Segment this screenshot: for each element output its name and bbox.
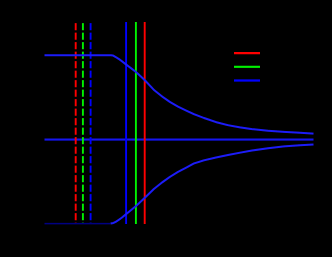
legend red sample <box>234 52 260 54</box>
upper branch curve <box>45 55 314 133</box>
solid blue vertical line <box>125 22 127 224</box>
solid green vertical line <box>135 22 137 224</box>
lower branch curve (bright rising part) <box>111 145 314 224</box>
dashed red vertical line <box>75 23 77 223</box>
lower branch flat asymptote segment (dark, near axis) <box>45 223 111 225</box>
middle asymptote line <box>45 139 314 141</box>
solid red vertical line <box>144 22 146 224</box>
dashed blue vertical line <box>90 23 92 223</box>
legend green sample <box>234 66 260 68</box>
legend blue sample <box>234 79 260 81</box>
dashed green vertical line <box>82 23 84 223</box>
